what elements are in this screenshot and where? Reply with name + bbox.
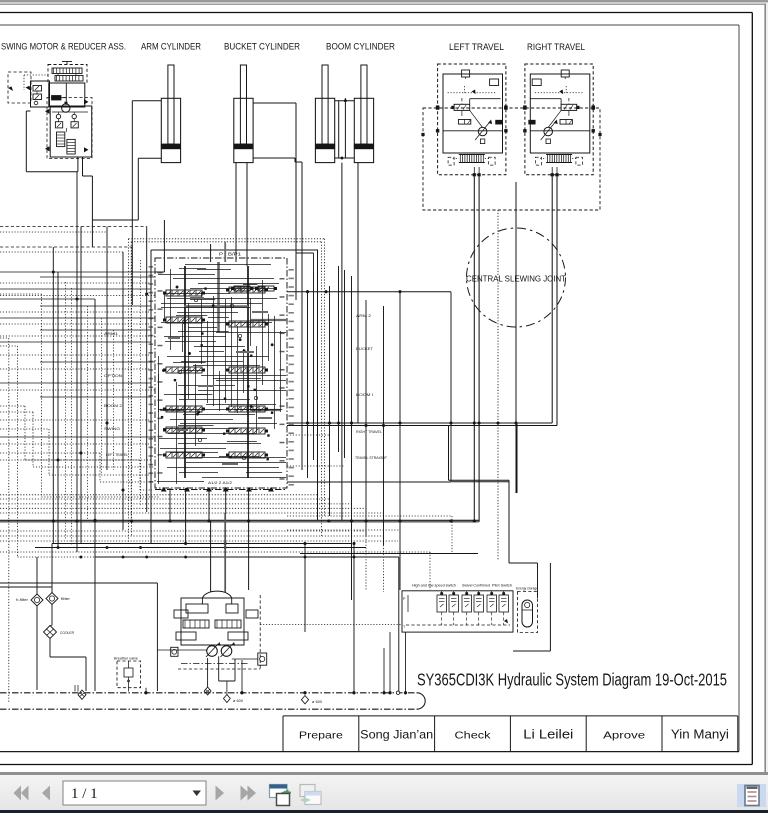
boom cylinder 2 xyxy=(361,65,367,144)
svg-text:Swivel Confirmed: Swivel Confirmed xyxy=(462,584,490,588)
page right edge xyxy=(764,4,766,773)
svg-text:SWING MOTOR & REDUCER ASS.: SWING MOTOR & REDUCER ASS. xyxy=(1,42,126,53)
boom cylinder interconnects xyxy=(335,100,355,102)
svg-text:ARM CYLINDER: ARM CYLINDER xyxy=(141,42,201,53)
swing assembly hoses xyxy=(77,157,79,172)
svg-text:1 / 1: 1 / 1 xyxy=(71,786,98,802)
svg-text:P B/P1: P B/P1 xyxy=(219,252,242,257)
svg-text:BOOM CYLINDER: BOOM CYLINDER xyxy=(326,42,395,53)
valve pilot top a xyxy=(234,286,250,291)
tank return hairpin line xyxy=(0,692,417,694)
left travel lines xyxy=(473,177,475,521)
prev view icon xyxy=(270,785,292,806)
svg-text:OPTION: OPTION xyxy=(104,373,122,378)
svg-text:ø 600: ø 600 xyxy=(233,699,243,703)
signature table xyxy=(283,715,738,717)
valve outer solid enclosure xyxy=(151,249,318,251)
valve spool L3 xyxy=(166,367,202,373)
valve spool R4 xyxy=(229,406,265,412)
central slewing joint circle xyxy=(467,228,566,327)
prev page button xyxy=(42,786,50,801)
pilot valve group xyxy=(402,591,513,632)
svg-text:Prepare: Prepare xyxy=(299,730,343,742)
left harness xyxy=(52,247,54,544)
center swivel line xyxy=(515,182,517,493)
valve spool R2 xyxy=(229,321,265,327)
swing reducer gearbox xyxy=(48,65,87,84)
drawing frame outer top xyxy=(0,12,752,14)
svg-text:CENTRAL SLEWING JOINT: CENTRAL SLEWING JOINT xyxy=(466,275,566,284)
svg-text:BOOM 2: BOOM 2 xyxy=(104,403,123,408)
next view icon (disabled) xyxy=(300,785,321,805)
svg-text:ARM 2: ARM 2 xyxy=(356,313,372,318)
valve spool L6 xyxy=(166,452,202,458)
svg-text:TRAVEL STRAIGHT: TRAVEL STRAIGHT xyxy=(355,455,387,460)
left travel motor xyxy=(438,64,506,175)
valve pilot top b xyxy=(258,286,274,291)
valve spool L1 xyxy=(166,290,202,296)
valve spool R6 xyxy=(229,452,265,458)
svg-text:Yin Manyi: Yin Manyi xyxy=(671,728,729,742)
page number field xyxy=(63,781,206,805)
svg-text:High and low speed switch: High and low speed switch xyxy=(412,584,456,588)
accumulator xyxy=(518,592,538,633)
valve block bottom ports xyxy=(155,489,287,491)
next page button xyxy=(216,786,225,801)
svg-text:Li Leilei: Li Leilei xyxy=(523,728,573,742)
svg-text:RIGHT TRAVEL: RIGHT TRAVEL xyxy=(527,42,585,53)
svg-text:SY365CDI3K Hydraulic System Di: SY365CDI3K Hydraulic System Diagram 19-O… xyxy=(417,670,727,690)
svg-text:ARM1: ARM1 xyxy=(104,331,119,336)
valve spool L2 xyxy=(166,317,202,323)
svg-text:COOLER: COOLER xyxy=(60,630,74,635)
dotted pilot enclosure xyxy=(128,238,324,240)
travel return double line xyxy=(287,422,552,424)
pilot supply loop xyxy=(449,479,510,481)
bottom line bundle xyxy=(0,494,317,496)
pump feed lines xyxy=(169,488,171,520)
right harness xyxy=(307,290,309,478)
travel group dashed enclosure xyxy=(423,108,600,210)
svg-text:h.filter: h.filter xyxy=(16,597,29,602)
swing motor shaft block xyxy=(49,83,85,107)
svg-text:ø´600: ø´600 xyxy=(312,700,322,704)
sidebar document button xyxy=(737,784,766,807)
valve block port labels xyxy=(149,266,154,268)
valve spool R3 xyxy=(229,367,265,373)
drawing frame inner bottom xyxy=(0,751,739,753)
right travel lines xyxy=(551,177,553,424)
svg-text:Song Jian’an: Song Jian’an xyxy=(360,728,433,742)
svg-text:A1/2 2 A1/2: A1/2 2 A1/2 xyxy=(208,480,233,485)
svg-text:Breather valve: Breather valve xyxy=(114,657,138,661)
svg-text:filter: filter xyxy=(61,596,71,601)
swing anti-reverse valve xyxy=(31,81,50,107)
taskbar dark strip xyxy=(0,810,768,813)
valve block internal lines xyxy=(185,264,271,266)
svg-text:BUCKET CYLINDER: BUCKET CYLINDER xyxy=(224,42,300,53)
swing brake valve block xyxy=(50,106,91,157)
drawing frame inner right xyxy=(738,25,740,752)
svg-text:Check: Check xyxy=(455,731,492,742)
valve spool R1 xyxy=(229,287,265,293)
main control valve border xyxy=(155,258,287,488)
svg-text:Aprove: Aprove xyxy=(603,730,645,742)
page top edge xyxy=(0,3,766,5)
svg-text:Pilot Switch: Pilot Switch xyxy=(492,584,512,588)
svg-text:LEFT TRAVEL: LEFT TRAVEL xyxy=(449,42,504,53)
svg-text:LEFT TRAVEL: LEFT TRAVEL xyxy=(106,452,129,457)
svg-text:BUCKET: BUCKET xyxy=(356,346,374,351)
valve spool L5 xyxy=(166,427,202,433)
svg-text:BOOM I: BOOM I xyxy=(356,392,373,397)
viewer toolbar xyxy=(0,772,768,813)
svg-text:Energy storage: Energy storage xyxy=(516,587,538,591)
viewer top strip xyxy=(0,0,768,2)
drawing frame outer right xyxy=(751,13,753,765)
svg-text:RIGHT TRAVEL: RIGHT TRAVEL xyxy=(356,429,383,434)
arm cylinder xyxy=(168,65,174,144)
drawing frame outer bottom xyxy=(0,764,752,766)
boom cylinder 1 xyxy=(322,65,328,144)
valve spool L4 xyxy=(166,406,202,412)
arm cylinder hoses xyxy=(132,100,161,102)
first page button xyxy=(14,786,22,801)
drawing frame inner top xyxy=(0,24,739,26)
bucket cylinder xyxy=(240,65,246,144)
svg-text:SWING: SWING xyxy=(104,426,120,431)
bucket cylinder hoses xyxy=(253,102,296,104)
main pump assembly xyxy=(202,591,231,598)
last page button xyxy=(241,786,250,801)
return filter and cooler xyxy=(36,557,38,594)
valve spool R5 xyxy=(229,428,265,434)
right travel motor xyxy=(525,64,593,175)
